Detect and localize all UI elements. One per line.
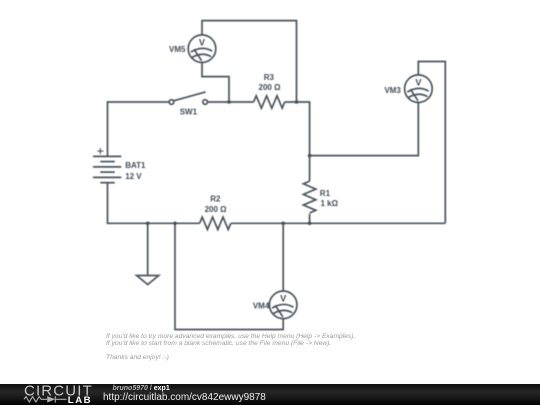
wire SW1 right to R3 left <box>207 101 253 103</box>
help text line 3 <box>106 354 169 361</box>
svg-text:V: V <box>199 38 206 48</box>
resistor R2 zigzag <box>200 217 231 229</box>
battery BAT1 plates <box>93 156 121 182</box>
wire VM3 top to right rail down to bottom rail <box>418 62 445 224</box>
wire top rail VM5 to R3 right node <box>202 21 297 102</box>
svg-text:VM3: VM3 <box>384 86 401 95</box>
CircuitLab logo <box>0 384 100 405</box>
battery plus sign <box>97 148 103 154</box>
svg-text:R2: R2 <box>210 195 221 204</box>
resistor R1 zigzag vertical <box>303 181 315 213</box>
wire battery top to SW1 left <box>108 102 170 156</box>
resistor R3 zigzag <box>254 96 285 108</box>
footer user / project <box>113 385 170 392</box>
wire bottom rail R2 right to right rail <box>231 222 445 224</box>
junction node at ground tap <box>146 222 150 226</box>
junction node at VM5 bottom tap <box>227 100 231 104</box>
svg-text:LAB: LAB <box>68 395 92 405</box>
voltmeter VM5 <box>188 35 216 63</box>
svg-text:V: V <box>280 294 287 304</box>
wire VM4 loop left and bottom <box>175 223 283 329</box>
svg-text:1 kΩ: 1 kΩ <box>321 199 339 208</box>
svg-text:200 Ω: 200 Ω <box>205 205 228 214</box>
junction node at R1 bottom <box>308 222 312 226</box>
svg-text:R3: R3 <box>264 73 275 82</box>
help text line 1 <box>106 333 355 340</box>
wire R1 top stub <box>309 156 311 182</box>
wire battery bottom to bottom rail <box>108 183 200 224</box>
voltmeter VM4 <box>269 291 297 319</box>
junction node at R1 top <box>308 154 312 158</box>
svg-text:200 Ω: 200 Ω <box>259 83 282 92</box>
svg-text:BAT1: BAT1 <box>125 161 146 170</box>
voltmeter VM3 <box>405 75 433 103</box>
svg-text:SW1: SW1 <box>180 108 198 117</box>
wire VM4 top to bottom rail <box>282 223 284 291</box>
svg-text:VM5: VM5 <box>169 45 186 54</box>
logo diode triangle <box>47 396 55 402</box>
junction node at VM4 loop left tap <box>173 222 177 226</box>
wire R3 right to R1 top <box>285 102 310 156</box>
svg-text:12 V: 12 V <box>125 172 142 181</box>
junction node at R3 right <box>295 100 299 104</box>
wire VM5 bottom to main node <box>202 63 229 103</box>
ground symbol <box>137 276 159 285</box>
switch SW1 lever <box>174 92 206 101</box>
logo resistor squiggle <box>24 396 67 402</box>
wire R1 bottom stub <box>309 214 311 223</box>
switch SW1 terminals <box>169 100 207 105</box>
footer url <box>103 393 266 403</box>
footer bar <box>0 384 540 405</box>
wire R1 top node to VM3 bottom <box>310 103 419 156</box>
help text line 2 <box>106 340 331 347</box>
svg-text:R1: R1 <box>320 189 331 198</box>
junction node at VM4 top tap <box>281 222 285 226</box>
svg-text:VM4: VM4 <box>253 302 270 311</box>
svg-text:V: V <box>415 78 422 88</box>
wire ground stem <box>147 223 149 275</box>
